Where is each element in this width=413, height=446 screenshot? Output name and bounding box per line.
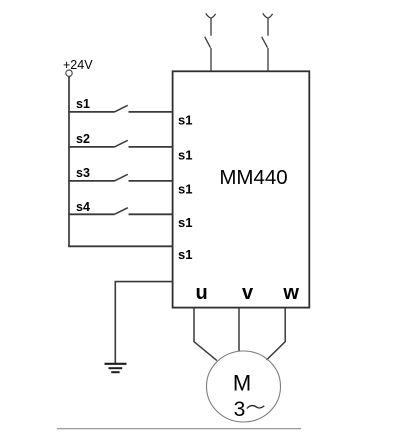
svg-text:v: v [242,282,254,304]
svg-text:s1: s1 [76,97,90,111]
svg-text:s1: s1 [178,215,192,230]
svg-text:s1: s1 [178,247,192,262]
svg-text:M: M [233,371,251,396]
svg-text:s1: s1 [178,148,192,163]
svg-text:s2: s2 [76,132,90,146]
svg-text:3: 3 [234,398,246,421]
svg-text:s1: s1 [178,113,192,128]
svg-text:s3: s3 [76,166,90,180]
svg-text:w: w [282,282,299,304]
svg-text:MM440: MM440 [219,166,287,189]
svg-text:s4: s4 [76,200,90,214]
svg-text:s1: s1 [178,182,192,197]
svg-text:u: u [195,282,207,304]
